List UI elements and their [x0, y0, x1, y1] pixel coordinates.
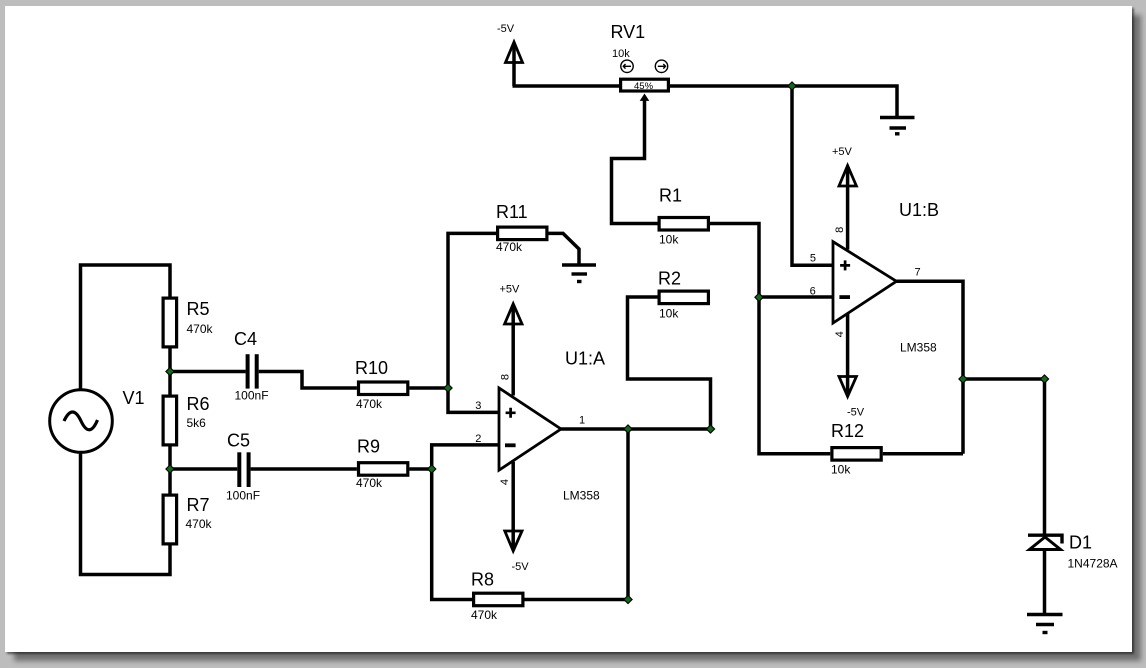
node junction C5 tap	[165, 464, 175, 474]
capacitor C5	[226, 431, 260, 503]
wire R8 right to pin1	[525, 429, 629, 600]
wire U1:B pin7 output	[897, 281, 964, 454]
power -5V U1:B	[839, 314, 865, 419]
wire R10 to pin3 jog	[409, 388, 499, 412]
wire RV1 wiper to R1	[612, 98, 658, 224]
svg-text:U1:A: U1:A	[565, 349, 605, 369]
resistor R10	[355, 358, 408, 411]
resistor R7	[163, 495, 212, 544]
wire output to D1	[963, 379, 1045, 534]
svg-text:+5V: +5V	[500, 284, 521, 296]
svg-text:8: 8	[500, 374, 512, 380]
svg-text:45%: 45%	[634, 81, 654, 92]
svg-text:10k: 10k	[659, 307, 679, 321]
diode D1 zener	[1028, 533, 1118, 571]
svg-text:2: 2	[475, 433, 481, 445]
svg-text:LM358: LM358	[900, 341, 937, 355]
svg-text:470k: 470k	[356, 476, 383, 490]
svg-text:3: 3	[475, 400, 481, 412]
svg-text:R11: R11	[496, 202, 528, 222]
node junction pin2	[427, 464, 437, 474]
node junction pin3	[443, 383, 453, 393]
node junction C4 tap	[165, 367, 175, 377]
resistor R12	[831, 421, 881, 477]
wire to U1:B pin6	[759, 295, 833, 299]
svg-text:470k: 470k	[471, 608, 498, 622]
resistor R2	[658, 269, 708, 321]
wire R1 to R12 vertical rail	[710, 224, 830, 454]
wire C4 to R10	[259, 372, 357, 389]
svg-text:4: 4	[834, 331, 846, 337]
svg-text:R12: R12	[831, 421, 864, 441]
svg-text:LM358: LM358	[563, 489, 600, 503]
svg-text:100nF: 100nF	[235, 389, 269, 403]
wire D1 to ground	[1043, 550, 1047, 614]
node junction R2 tap	[706, 424, 716, 434]
svg-text:470k: 470k	[186, 517, 213, 531]
svg-text:100nF: 100nF	[226, 489, 260, 503]
svg-text:1: 1	[579, 415, 585, 427]
svg-text:R10: R10	[355, 358, 388, 378]
wire R2 left to U1:A output	[628, 297, 711, 429]
wire R8 loop left	[432, 469, 472, 600]
wire R12 right	[883, 452, 963, 456]
node junction R2/pin6	[754, 292, 764, 302]
svg-text:6: 6	[810, 286, 816, 298]
resistor R6	[163, 394, 209, 445]
resistor R8	[471, 570, 523, 623]
wire R9 to pin2 jog	[409, 445, 499, 469]
wire R11 to ground	[549, 233, 580, 263]
resistor R9	[356, 437, 408, 491]
resistor R5	[163, 298, 213, 347]
svg-text:470k: 470k	[356, 397, 383, 411]
svg-text:7: 7	[914, 267, 920, 279]
voltage source V1	[50, 388, 145, 452]
node junction D1 top	[1040, 374, 1050, 384]
svg-text:5k6: 5k6	[187, 416, 207, 430]
svg-text:-5V: -5V	[497, 23, 515, 35]
svg-text:R2: R2	[658, 269, 681, 289]
node junction RV1 rail	[787, 81, 797, 91]
svg-text:+5V: +5V	[832, 146, 853, 158]
svg-text:4: 4	[499, 479, 511, 485]
node junction R8 right	[623, 595, 633, 605]
svg-text:1N4728A: 1N4728A	[1068, 557, 1118, 571]
svg-text:-5V: -5V	[847, 407, 865, 419]
wire V1 bottom loop	[81, 452, 171, 574]
svg-text:5: 5	[810, 253, 816, 265]
ground (R11)	[562, 265, 596, 282]
power -5V U1:A	[505, 462, 529, 573]
resistor R11	[496, 202, 547, 254]
svg-text:RV1: RV1	[611, 22, 646, 42]
power +5V U1:A	[500, 284, 523, 396]
wire V1 top loop	[81, 265, 171, 390]
wire C5 left	[170, 467, 237, 471]
svg-text:C4: C4	[234, 329, 257, 349]
wire -5V rail to RV1	[513, 84, 620, 88]
wire U1:A pin1 output	[561, 427, 711, 431]
svg-text:U1:B: U1:B	[899, 200, 939, 220]
capacitor C4	[234, 329, 269, 403]
wire R11 left	[448, 233, 496, 388]
svg-text:V1: V1	[123, 388, 145, 408]
svg-text:10k: 10k	[612, 48, 630, 60]
wire C5 to R9	[251, 467, 357, 471]
svg-text:R9: R9	[357, 437, 380, 457]
wire C4 left	[170, 370, 246, 374]
svg-text:R5: R5	[187, 299, 210, 319]
node junction pin1	[623, 424, 633, 434]
power -5V top	[497, 23, 523, 86]
node junction output rail	[958, 374, 968, 384]
svg-text:R6: R6	[187, 394, 210, 414]
op-amp U1:B	[810, 200, 939, 355]
svg-text:10k: 10k	[831, 463, 851, 477]
svg-text:8: 8	[834, 227, 846, 233]
wire R6 to R7	[168, 446, 172, 493]
power +5V U1:B	[832, 146, 856, 250]
potentiometer RV1	[611, 22, 669, 101]
resistor R1	[659, 186, 708, 247]
svg-text:470k: 470k	[187, 322, 214, 336]
svg-text:R7: R7	[187, 495, 210, 515]
ground (top right)	[880, 118, 915, 134]
svg-text:10k: 10k	[659, 233, 679, 247]
wire RV1 to ground	[670, 86, 897, 117]
svg-text:C5: C5	[227, 431, 250, 451]
svg-text:-5V: -5V	[512, 561, 530, 573]
ground (below D1)	[1027, 615, 1063, 633]
wire R5 to R6	[168, 349, 172, 395]
svg-text:470k: 470k	[496, 240, 523, 254]
op-amp U1:A	[475, 349, 605, 503]
svg-text:D1: D1	[1069, 533, 1092, 553]
svg-text:R8: R8	[471, 570, 494, 590]
wire junction to U1:B pin5	[792, 86, 833, 265]
svg-text:R1: R1	[659, 186, 682, 206]
